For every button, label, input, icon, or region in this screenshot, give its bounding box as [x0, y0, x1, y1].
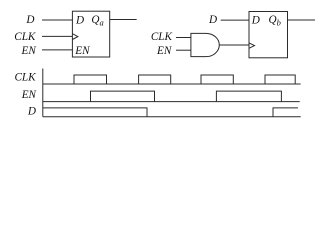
AND gate G1: [191, 33, 219, 56]
svg-text:EN: EN: [74, 45, 90, 57]
clock triangle U1: [72, 34, 78, 40]
wire Qa output of U1: [110, 19, 137, 21]
svg-text:D: D: [251, 14, 260, 26]
wire G1 output to U2 clock: [219, 44, 249, 46]
svg-text:D: D: [27, 105, 36, 117]
wire EN input to G1: [176, 49, 191, 51]
svg-text:Qb: Qb: [269, 14, 281, 28]
svg-text:CLK: CLK: [14, 31, 36, 43]
EN pulse 1: [91, 91, 155, 102]
svg-text:D: D: [25, 14, 34, 26]
svg-text:D: D: [75, 14, 84, 26]
timing axis vertical: [42, 69, 44, 117]
wire Qb output of U2: [287, 19, 315, 21]
CLK pulse 3: [201, 75, 233, 84]
wire CLK input to U1: [42, 35, 72, 37]
clock triangle U2: [249, 43, 255, 48]
svg-text:EN: EN: [21, 89, 37, 101]
CLK waveform baseline: [43, 83, 301, 85]
svg-text:D: D: [208, 14, 217, 26]
wire CLK input to G1: [176, 37, 191, 39]
svg-text:EN: EN: [21, 45, 37, 57]
wire D input to U2: [221, 19, 249, 21]
flip-flop U1 box: [72, 11, 109, 57]
D high segment 2: [273, 108, 298, 117]
D waveform baseline: [43, 116, 301, 118]
D high segment 1: [43, 108, 147, 117]
CLK pulse 4: [265, 75, 295, 84]
CLK pulse 2: [139, 75, 171, 84]
wire D input to U1: [42, 19, 72, 21]
CLK pulse 1: [74, 75, 107, 84]
flip-flop U2 box: [249, 12, 288, 58]
svg-text:CLK: CLK: [14, 71, 36, 83]
EN waveform baseline: [43, 101, 300, 103]
svg-text:Qa: Qa: [91, 14, 103, 28]
EN pulse 2: [216, 91, 281, 102]
svg-text:CLK: CLK: [151, 31, 173, 43]
svg-text:EN: EN: [156, 45, 172, 57]
wire EN input to U1: [42, 49, 72, 51]
